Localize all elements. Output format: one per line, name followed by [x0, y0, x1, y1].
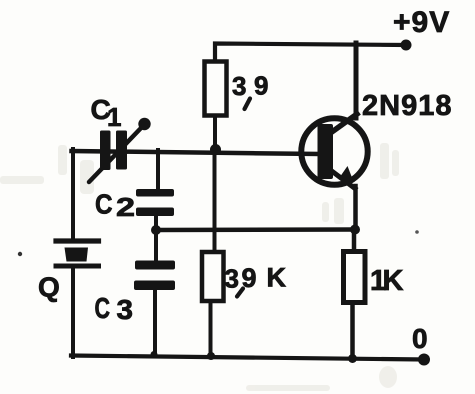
svg-text:3: 3 — [225, 264, 239, 294]
svg-text:C: C — [95, 189, 113, 220]
svg-text:3: 3 — [117, 294, 134, 325]
svg-text:Q: Q — [38, 272, 60, 303]
svg-text:K: K — [267, 263, 287, 293]
svg-text:2N918: 2N918 — [362, 90, 452, 122]
svg-text:2: 2 — [116, 192, 135, 222]
svg-text:9: 9 — [254, 71, 268, 101]
svg-text:C: C — [95, 293, 111, 325]
svg-text:+9V: +9V — [393, 6, 450, 39]
svg-text:1: 1 — [107, 102, 121, 132]
svg-text:K: K — [383, 265, 404, 297]
svg-text:0: 0 — [412, 323, 428, 354]
svg-text:3: 3 — [232, 71, 246, 101]
